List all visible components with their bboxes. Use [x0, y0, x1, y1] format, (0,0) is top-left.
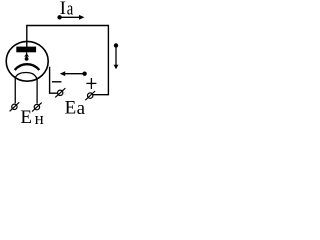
- minus sign: [52, 81, 62, 83]
- electron dot: [25, 57, 29, 61]
- current arrow anode branch (down): [114, 43, 119, 69]
- anode plate: [16, 47, 36, 53]
- terminal: Ea minus: [55, 88, 65, 97]
- heater lead right: [36, 79, 38, 103]
- terminal: heater left: [10, 102, 20, 111]
- svg-text:E: E: [20, 107, 32, 128]
- svg-text:E: E: [65, 98, 77, 119]
- wire: anode lead, top wire, right side, to + terminal: [27, 26, 109, 95]
- svg-text:a: a: [67, 0, 74, 20]
- terminal: heater right: [32, 103, 42, 112]
- plus sign: [86, 78, 96, 89]
- svg-text:н: н: [35, 109, 44, 128]
- current arrow Ia: [57, 15, 84, 20]
- label Ea: [65, 98, 86, 120]
- cathode: [15, 64, 40, 70]
- wire: cathode to minus terminal: [50, 67, 58, 93]
- svg-text:a: a: [77, 98, 86, 119]
- tube V1 envelope: [6, 41, 48, 81]
- label Ia: [60, 0, 74, 20]
- terminal: Ea plus: [85, 91, 95, 100]
- heater filament: [15, 73, 37, 80]
- label Eн: [20, 107, 43, 128]
- electron flow arrow: [24, 52, 29, 57]
- current arrow Ea (left): [60, 71, 87, 76]
- heater lead left: [14, 78, 16, 104]
- svg-text:I: I: [60, 0, 66, 19]
